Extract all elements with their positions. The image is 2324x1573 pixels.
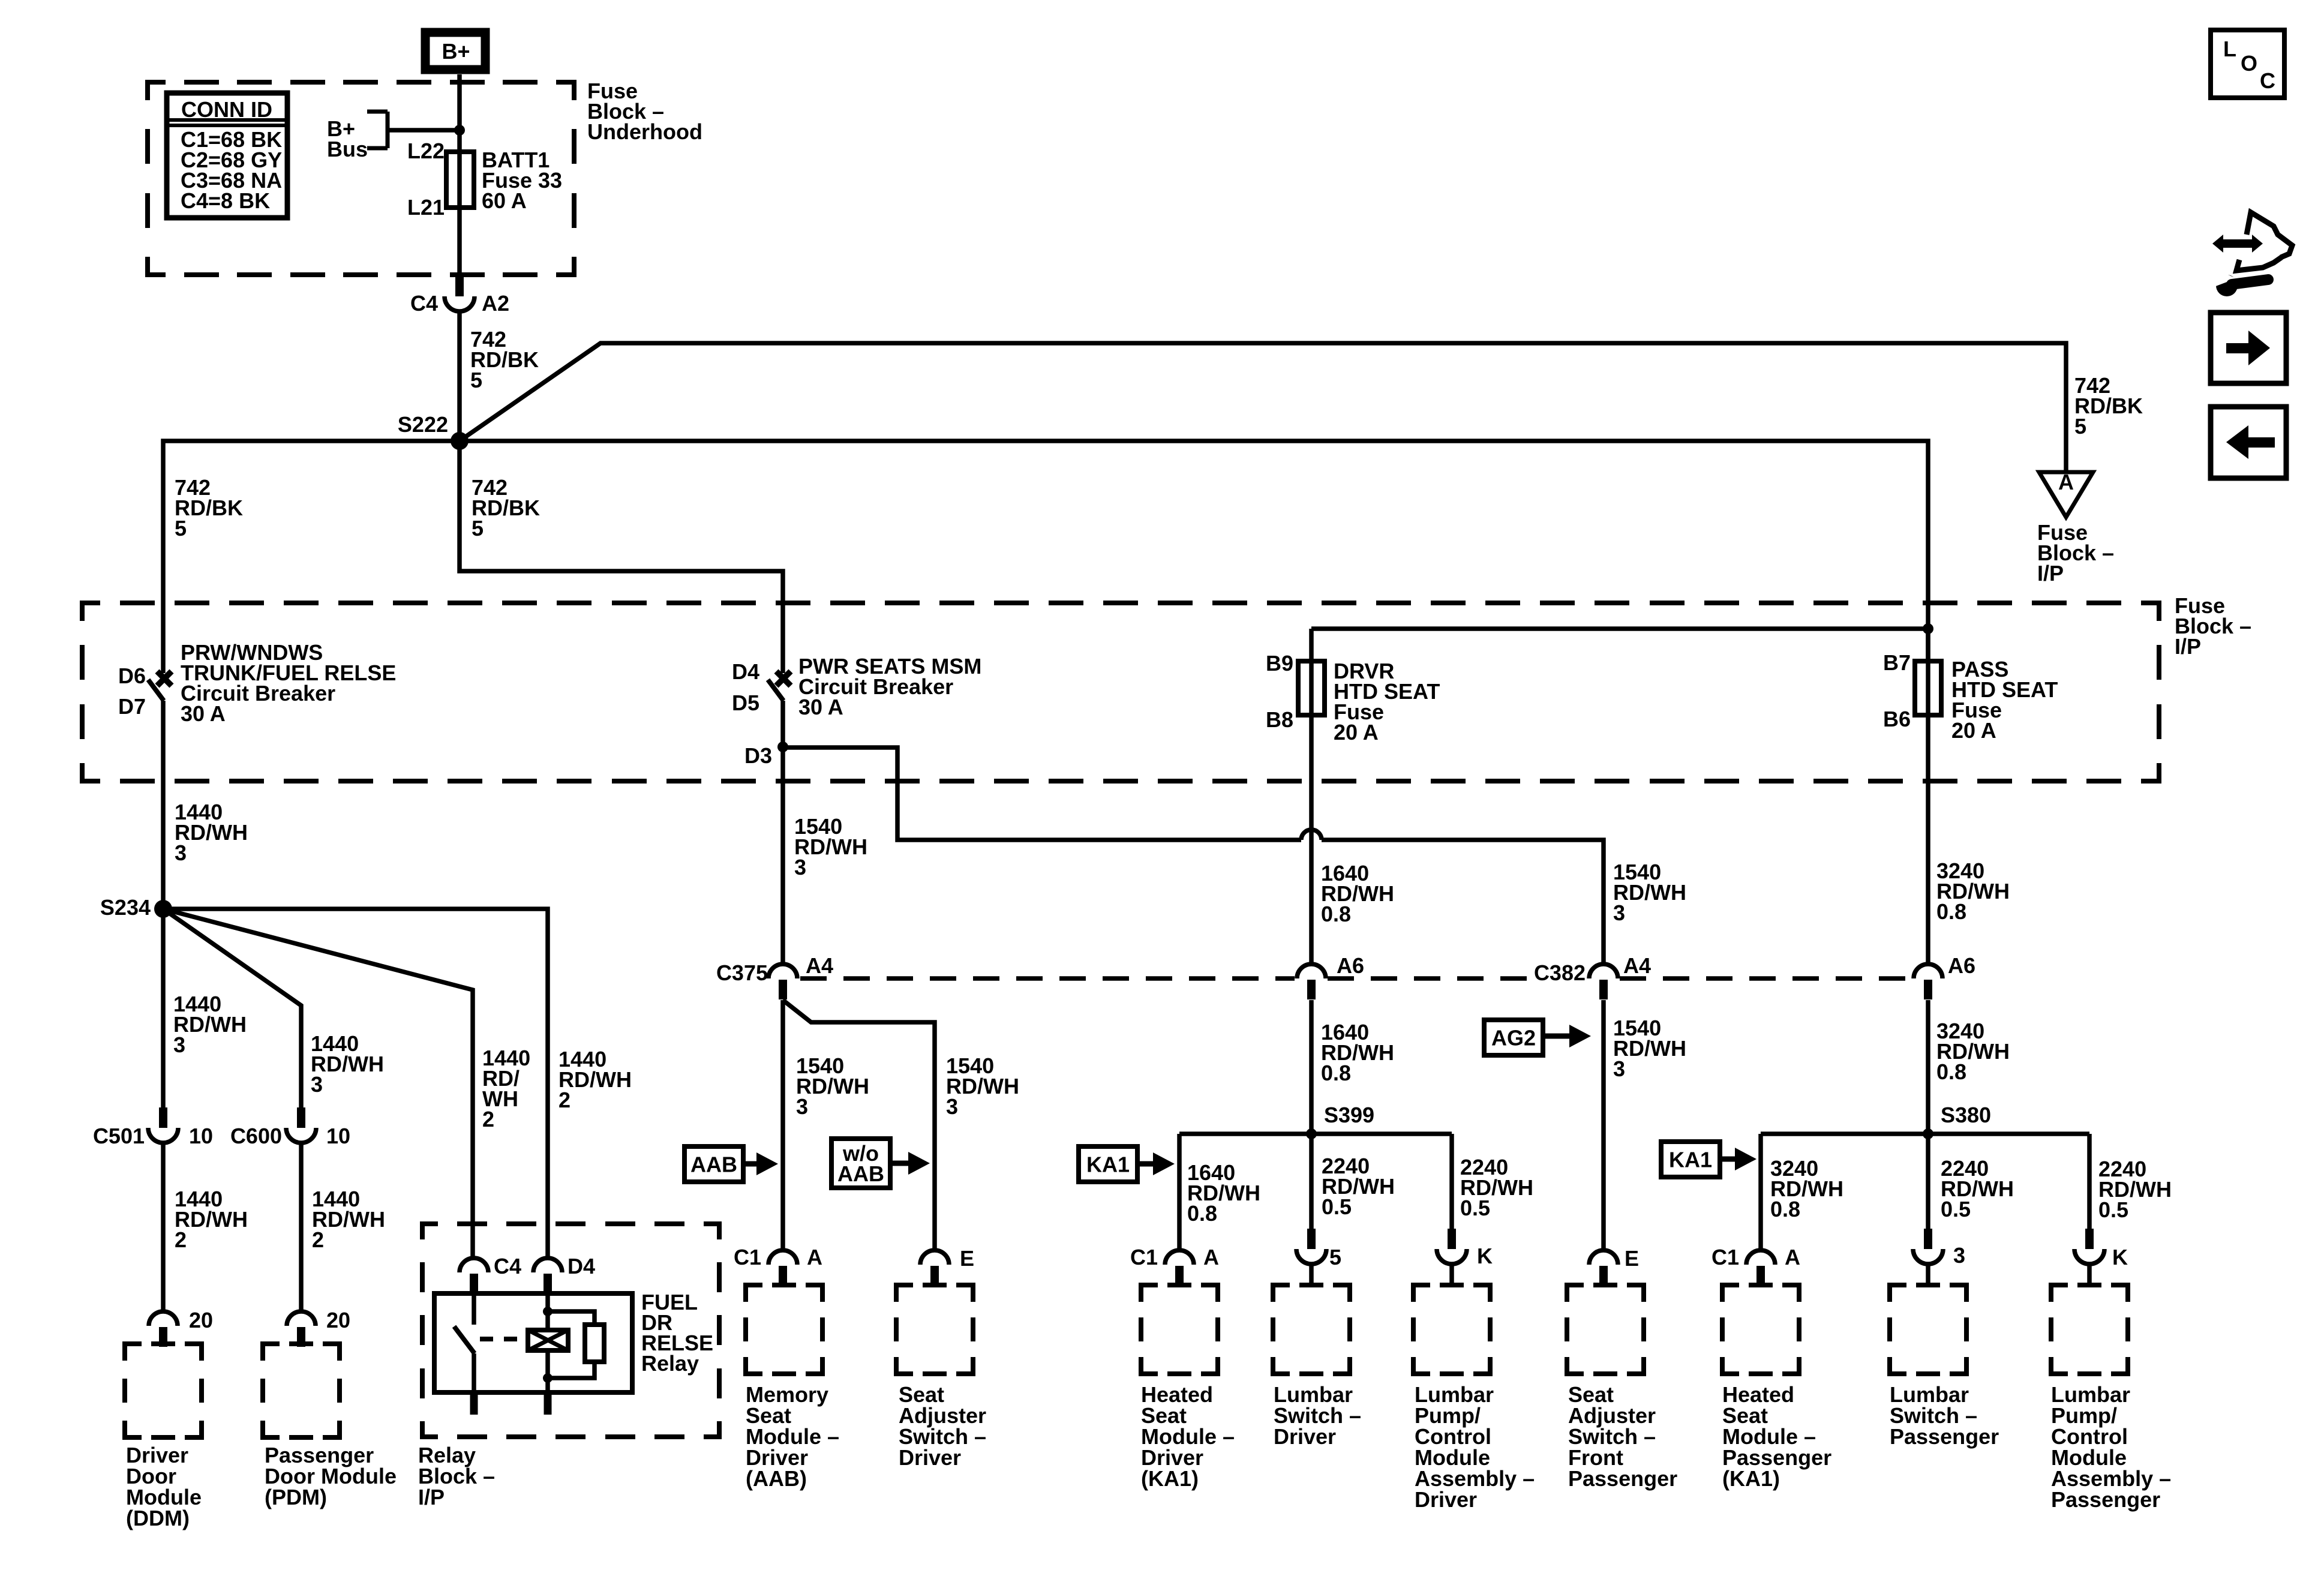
svg-text:C4: C4 <box>410 291 438 316</box>
module seat adjuster switch driver <box>896 1285 973 1374</box>
svg-text:0.5: 0.5 <box>2098 1197 2128 1222</box>
svg-text:B+: B+ <box>442 39 470 64</box>
flag AAB <box>684 1146 743 1182</box>
svg-text:3: 3 <box>311 1072 323 1097</box>
connector DDM 20 <box>149 1311 178 1326</box>
svg-text:0.8: 0.8 <box>1936 899 1966 924</box>
flag KA1 driver <box>1079 1146 1137 1182</box>
svg-text:3: 3 <box>796 1094 808 1119</box>
connector C4/A2 below fuse block underhood <box>455 276 464 296</box>
wire hop over B9 wire <box>1301 830 1322 840</box>
svg-text:2: 2 <box>559 1088 571 1112</box>
flag w/o AAB <box>831 1139 890 1188</box>
svg-text:L22: L22 <box>407 139 445 163</box>
relay coil <box>545 1293 550 1330</box>
node D3 <box>777 742 788 752</box>
svg-text:K: K <box>2112 1245 2128 1269</box>
svg-text:B9: B9 <box>1266 651 1293 676</box>
svg-text:A4: A4 <box>1623 953 1651 978</box>
svg-text:20: 20 <box>326 1308 350 1332</box>
svg-text:C4: C4 <box>494 1254 521 1278</box>
svg-text:Underhood: Underhood <box>587 119 702 144</box>
connector C600 <box>297 1107 305 1128</box>
connector A6 driver <box>1297 964 1326 978</box>
fuse block underhood dashed box <box>148 82 574 275</box>
svg-text:(DDM): (DDM) <box>126 1506 190 1530</box>
svg-text:5: 5 <box>472 516 484 541</box>
svg-text:Passenger: Passenger <box>2051 1487 2160 1512</box>
connector heated seat passenger C1 A <box>1746 1250 1775 1265</box>
svg-text:10: 10 <box>189 1124 213 1148</box>
svg-text:KA1: KA1 <box>1669 1148 1712 1172</box>
svg-text:Relay: Relay <box>641 1351 699 1376</box>
relay coil box <box>528 1330 568 1350</box>
svg-text:D3: D3 <box>744 743 772 768</box>
svg-text:0.5: 0.5 <box>1941 1197 1971 1221</box>
svg-text:A6: A6 <box>1948 953 1975 978</box>
wire S380 right to lumbar pump passenger <box>2087 1134 2092 1229</box>
svg-text:CONN ID: CONN ID <box>181 97 272 122</box>
connector heated seat driver C1 A <box>1165 1250 1194 1265</box>
node S399 splice <box>1306 1128 1317 1139</box>
connector seat adjuster front passenger E <box>1589 1250 1618 1265</box>
svg-text:A6: A6 <box>1337 953 1364 978</box>
connector lumbar pump passenger K <box>2085 1229 2094 1249</box>
svg-text:I/P: I/P <box>2175 634 2201 659</box>
svg-text:D4: D4 <box>568 1254 595 1278</box>
svg-text:5: 5 <box>470 368 482 392</box>
svg-text:0.8: 0.8 <box>1321 1061 1351 1085</box>
flag AG2 <box>1484 1020 1543 1055</box>
svg-text:3: 3 <box>1613 900 1625 925</box>
svg-text:C1: C1 <box>734 1245 761 1269</box>
svg-text:B7: B7 <box>1883 650 1911 675</box>
icon vehicle with arrow and wrench <box>2247 212 2292 257</box>
svg-text:0.5: 0.5 <box>1460 1196 1490 1220</box>
svg-text:3: 3 <box>1613 1056 1625 1081</box>
svg-text:D4: D4 <box>732 659 759 684</box>
svg-text:Driver: Driver <box>899 1445 961 1470</box>
svg-text:Driver: Driver <box>1274 1424 1336 1449</box>
connector lumbar switch driver 5 <box>1307 1229 1316 1249</box>
svg-text:0.8: 0.8 <box>1321 902 1351 926</box>
icon back arrow box <box>2211 407 2286 478</box>
svg-text:KA1: KA1 <box>1086 1152 1130 1177</box>
connector memory seat module C1 A <box>768 1250 797 1265</box>
svg-text:I/P: I/P <box>2037 561 2064 586</box>
svg-text:C501: C501 <box>93 1124 145 1148</box>
fuse DRVR HTD SEAT B9/B8 <box>1311 626 1928 631</box>
svg-text:(AAB): (AAB) <box>746 1466 807 1491</box>
module lumbar switch passenger <box>1890 1285 1966 1374</box>
svg-text:C375: C375 <box>716 960 768 985</box>
svg-text:2: 2 <box>175 1227 187 1252</box>
svg-text:20 A: 20 A <box>1334 720 1379 745</box>
connector line dashed C375-A6 <box>800 976 1295 981</box>
svg-text:C1: C1 <box>1712 1245 1739 1269</box>
svg-text:5: 5 <box>2074 414 2086 439</box>
wire S399 right to lumbar pump driver <box>1449 1134 1454 1229</box>
svg-text:C1: C1 <box>1130 1245 1158 1269</box>
connector line dashed C382-A6 passenger <box>1620 976 1912 981</box>
connector lumbar pump driver K <box>1448 1229 1456 1249</box>
wire S234 right to relay D4 <box>163 909 548 1260</box>
svg-text:S399: S399 <box>1324 1103 1374 1127</box>
relay block I/P dashed box <box>422 1224 719 1437</box>
wire S222 right to B7 fuse <box>460 441 1928 661</box>
svg-text:A2: A2 <box>482 291 509 316</box>
icon LOC box <box>2211 30 2284 98</box>
module seat adjuster switch front passenger <box>1567 1285 1644 1374</box>
svg-text:L: L <box>2223 37 2236 61</box>
node B+ bus junction <box>454 125 465 136</box>
svg-text:5: 5 <box>175 516 187 541</box>
connector C501 <box>159 1107 167 1128</box>
flag KA1 passenger <box>1661 1142 1720 1177</box>
wire S234 down to C501 <box>161 909 166 1107</box>
wire C501 to DDM <box>161 1142 166 1311</box>
svg-text:(PDM): (PDM) <box>265 1485 327 1509</box>
wire B+ to fuse BATT1 <box>457 74 462 276</box>
svg-text:C: C <box>2260 68 2275 93</box>
svg-text:AAB: AAB <box>837 1161 884 1186</box>
module memory seat module driver <box>746 1285 822 1374</box>
svg-text:A: A <box>807 1245 822 1269</box>
wire D3 branch right to C382 <box>783 748 1301 840</box>
svg-text:C4=8 BK: C4=8 BK <box>181 188 270 213</box>
svg-text:20 A: 20 A <box>1951 718 1996 743</box>
wire to heated seat driver C1 A <box>1177 1134 1182 1251</box>
svg-text:3: 3 <box>173 1032 185 1057</box>
svg-text:Passenger: Passenger <box>1568 1466 1677 1491</box>
node S234 splice <box>154 900 172 918</box>
wire to heated seat passenger <box>1758 1134 1763 1251</box>
svg-text:E: E <box>960 1246 974 1271</box>
svg-text:Driver: Driver <box>1415 1487 1477 1512</box>
wire S399 horizontal <box>1179 1131 1452 1136</box>
icon forward arrow box <box>2211 313 2286 383</box>
svg-text:A: A <box>1203 1245 1219 1269</box>
fuse BATT1 Fuse 33 60A <box>446 152 474 208</box>
svg-text:A4: A4 <box>806 953 833 978</box>
wire C382 to seat adjuster front passenger E <box>1601 1000 1606 1251</box>
wire A6 passenger to S380 <box>1926 1000 1930 1134</box>
wire S380 horizontal <box>1761 1131 2089 1136</box>
module heated seat module driver <box>1141 1285 1218 1374</box>
node B7 junction <box>1923 623 1933 634</box>
svg-text:2: 2 <box>312 1227 324 1252</box>
connector A6 passenger <box>1914 964 1942 978</box>
wire S222 down to D4 breaker <box>460 441 783 673</box>
svg-text:(KA1): (KA1) <box>1141 1466 1199 1491</box>
wire S234 diagonal to relay C4 <box>163 909 473 1260</box>
grid triangle A to Fuse Block I/P <box>2039 472 2093 517</box>
svg-text:K: K <box>1477 1244 1493 1268</box>
circuit breaker D6/D7 PRW/WNDWS <box>157 671 172 686</box>
connector line dashed A6-C382 <box>1328 976 1527 981</box>
svg-text:D5: D5 <box>732 691 759 715</box>
svg-text:3: 3 <box>1953 1243 1965 1268</box>
connector lumbar switch passenger 3 <box>1924 1229 1932 1249</box>
svg-text:3: 3 <box>175 840 187 865</box>
svg-text:S234: S234 <box>100 895 151 920</box>
svg-text:A: A <box>1785 1245 1800 1269</box>
circuit breaker D4/D5 PWR SEATS MSM <box>776 671 791 686</box>
svg-text:O: O <box>2241 51 2257 76</box>
svg-text:Bus: Bus <box>327 137 368 161</box>
connector relay C4 <box>460 1258 488 1272</box>
svg-text:30 A: 30 A <box>798 695 843 719</box>
svg-text:2: 2 <box>482 1107 494 1131</box>
connector relay D4 <box>533 1258 562 1272</box>
svg-text:0.8: 0.8 <box>1770 1197 1800 1221</box>
svg-text:5: 5 <box>1329 1245 1341 1269</box>
svg-text:C382: C382 <box>1534 960 1586 985</box>
module lumbar pump control module driver <box>1413 1285 1490 1374</box>
wire 742 RD/BK to S222 <box>457 311 462 443</box>
relay FUEL DR RELSE box <box>434 1293 632 1392</box>
svg-text:B8: B8 <box>1266 707 1293 732</box>
module driver door module DDM <box>125 1344 202 1437</box>
svg-text:AAB: AAB <box>690 1152 737 1177</box>
module passenger door module PDM <box>263 1344 340 1437</box>
wire S222 up-right to fuse block I/P (A) <box>460 343 2066 472</box>
module lumbar switch driver <box>1273 1285 1350 1374</box>
svg-text:0.8: 0.8 <box>1187 1201 1217 1226</box>
svg-text:L21: L21 <box>407 195 445 220</box>
connector PDM 20 <box>287 1311 316 1326</box>
wire C375 down to memory seat module <box>780 1000 785 1251</box>
svg-text:Passenger: Passenger <box>1890 1424 1999 1449</box>
relay actuation dashes <box>480 1337 527 1341</box>
svg-text:S222: S222 <box>398 412 448 437</box>
wire S380 down to lumbar switch passenger <box>1926 1134 1930 1229</box>
relay switch <box>472 1293 476 1325</box>
svg-text:20: 20 <box>189 1308 213 1332</box>
svg-text:3: 3 <box>794 855 806 879</box>
svg-text:AG2: AG2 <box>1491 1026 1536 1050</box>
svg-text:30 A: 30 A <box>181 701 226 726</box>
svg-text:(KA1): (KA1) <box>1722 1466 1780 1491</box>
svg-text:S380: S380 <box>1941 1103 1991 1127</box>
svg-text:B6: B6 <box>1883 707 1911 731</box>
svg-text:0.5: 0.5 <box>1322 1194 1352 1219</box>
B+ Bus tap <box>386 112 390 148</box>
connector seat adjuster driver E <box>920 1250 949 1265</box>
svg-text:I/P: I/P <box>418 1485 445 1509</box>
wire S234 diagonal to C600 <box>163 909 301 1107</box>
wire S222 left to D6 breaker <box>163 441 460 673</box>
svg-text:3: 3 <box>946 1094 958 1119</box>
module lumbar pump control module passenger <box>2051 1285 2128 1374</box>
svg-text:C600: C600 <box>230 1124 282 1148</box>
fuse PASS HTD SEAT B7/B6 <box>1926 629 1930 964</box>
connector C375 A4 <box>768 964 797 978</box>
connector C382 A4 <box>1589 964 1618 978</box>
svg-text:D7: D7 <box>118 694 146 719</box>
wire C600 to PDM <box>299 1142 304 1311</box>
wire S399 down to lumbar switch driver <box>1309 1134 1314 1229</box>
module heated seat module passenger <box>1722 1285 1799 1374</box>
svg-text:A: A <box>2058 470 2074 494</box>
node S222 splice <box>451 432 469 450</box>
svg-text:E: E <box>1625 1246 1639 1271</box>
svg-text:60 A: 60 A <box>482 188 527 213</box>
svg-text:0.8: 0.8 <box>1936 1059 1966 1084</box>
fuse block I/P dashed box <box>82 603 2159 781</box>
wire C375 branch to seat adjuster switch driver <box>783 1000 935 1251</box>
svg-text:D6: D6 <box>118 664 146 688</box>
node S380 splice <box>1923 1128 1933 1139</box>
power feed B+ terminal <box>425 32 485 70</box>
wire A6 to S399 <box>1309 1000 1314 1134</box>
CONN ID table <box>167 93 287 218</box>
svg-text:10: 10 <box>326 1124 350 1148</box>
